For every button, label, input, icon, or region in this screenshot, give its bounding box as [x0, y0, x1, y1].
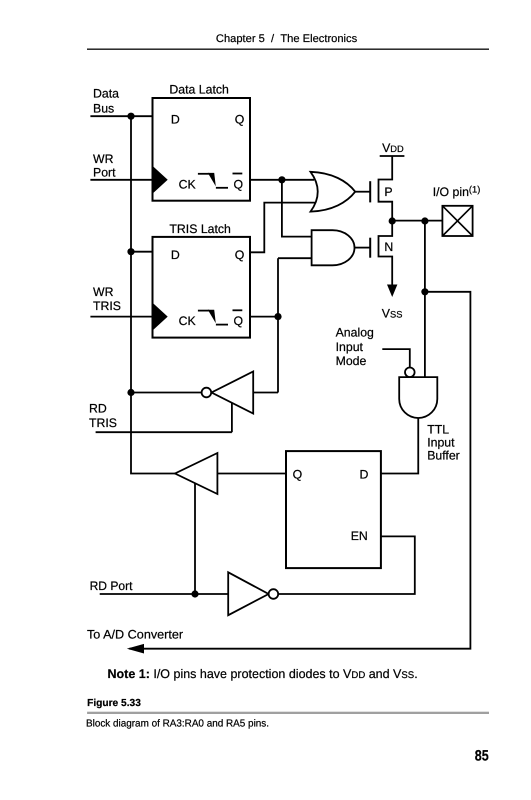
svg-text:D: D: [360, 467, 369, 481]
svg-text:Q: Q: [293, 467, 303, 481]
svg-text:WR: WR: [93, 285, 114, 299]
svg-text:TTL: TTL: [427, 423, 449, 437]
svg-text:TRIS: TRIS: [93, 299, 121, 313]
svg-text:D: D: [171, 113, 180, 127]
svg-text:EN: EN: [351, 529, 368, 543]
svg-text:Q: Q: [234, 314, 244, 328]
svg-text:P: P: [384, 185, 392, 199]
svg-text:WR: WR: [93, 152, 114, 166]
svg-text:Input: Input: [336, 340, 364, 354]
svg-text:Block diagram of RA3:RA0 and R: Block diagram of RA3:RA0 and RA5 pins.: [86, 719, 269, 730]
svg-text:Q: Q: [235, 113, 245, 127]
svg-text:Q: Q: [234, 177, 244, 191]
svg-text:Note 1: I/O pins have protecti: Note 1: I/O pins have protection diodes …: [108, 667, 418, 681]
svg-text:TRIS Latch: TRIS Latch: [169, 222, 231, 236]
svg-text:Buffer: Buffer: [427, 449, 460, 463]
svg-text:Data: Data: [93, 87, 119, 101]
svg-text:RD: RD: [89, 402, 107, 416]
svg-text:Port: Port: [93, 165, 116, 179]
svg-text:N: N: [384, 240, 393, 254]
svg-text:VSS: VSS: [382, 307, 403, 321]
svg-text:Mode: Mode: [336, 354, 367, 368]
svg-text:CK: CK: [179, 177, 197, 191]
svg-text:Figure 5.33: Figure 5.33: [87, 698, 141, 709]
svg-text:Bus: Bus: [93, 101, 114, 115]
svg-text:Analog: Analog: [336, 326, 374, 340]
svg-text:85: 85: [475, 747, 489, 764]
svg-text:Q: Q: [235, 248, 245, 262]
svg-text:Input: Input: [427, 436, 455, 450]
svg-text:Data Latch: Data Latch: [169, 82, 229, 96]
svg-text:Chapter 5 / The Electronics: Chapter 5 / The Electronics: [216, 33, 358, 45]
svg-text:D: D: [171, 248, 180, 262]
svg-text:To A/D Converter: To A/D Converter: [87, 628, 183, 642]
svg-text:TRIS: TRIS: [89, 416, 117, 430]
svg-text:RD Port: RD Port: [90, 579, 133, 593]
svg-text:VDD: VDD: [382, 141, 404, 155]
svg-text:CK: CK: [179, 314, 197, 328]
